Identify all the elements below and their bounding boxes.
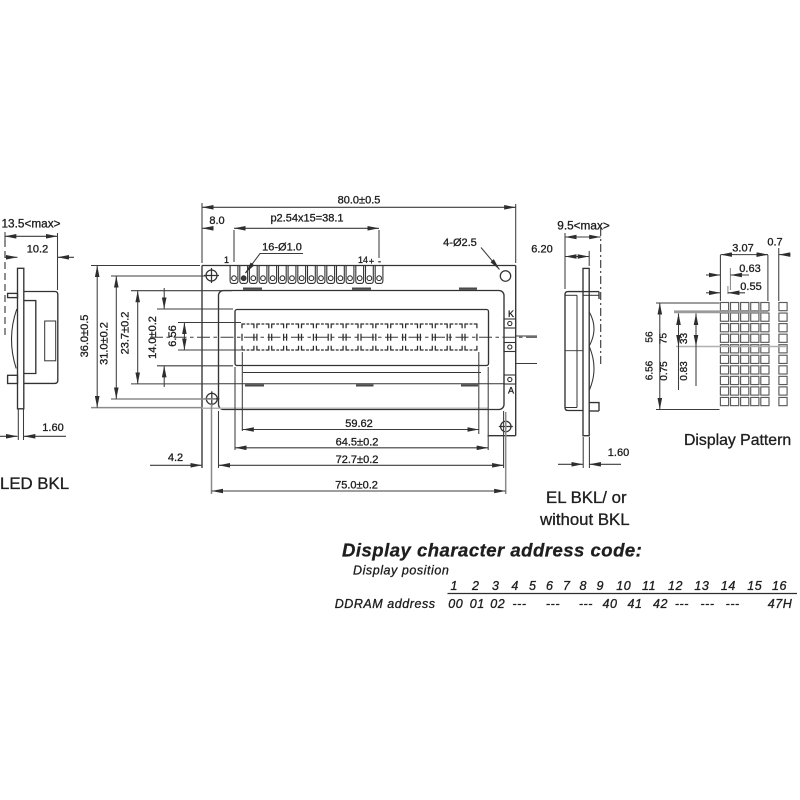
svg-text:5: 5 (529, 579, 537, 593)
svg-text:6: 6 (546, 579, 554, 593)
dim 6.56 (659, 303, 661, 410)
inner glass (576, 295, 578, 407)
svg-text:10: 10 (616, 579, 631, 593)
svg-text:---: --- (700, 597, 714, 611)
bezel inner fold line (219, 383, 504, 385)
svg-text:33: 33 (679, 333, 690, 345)
svg-text:40: 40 (602, 597, 617, 611)
svg-text:59.62: 59.62 (345, 418, 373, 430)
svg-text:3.07: 3.07 (732, 243, 753, 255)
bezel bottom tabs (245, 384, 264, 386)
svg-text:11: 11 (642, 579, 656, 593)
svg-text:Display Pattern: Display Pattern (684, 432, 791, 449)
K/A backlight pads (504, 319, 516, 384)
housing box (565, 292, 583, 411)
svg-text:4: 4 (511, 579, 519, 593)
mounting hole top-right (500, 271, 510, 281)
pcb top edge (202, 265, 516, 267)
pcb right edge (515, 266, 517, 436)
svg-text:---: --- (726, 597, 740, 611)
dim p2.54 (234, 227, 379, 229)
display window (235, 310, 489, 366)
svg-text:---: --- (512, 597, 526, 611)
svg-text:16: 16 (772, 579, 787, 593)
svg-text:p2.54x15=38.1: p2.54x15=38.1 (270, 213, 343, 225)
seam line (565, 350, 583, 352)
dim 6.56 arrows inside (183, 323, 185, 337)
bottom tab (589, 403, 599, 411)
svg-text:LED BKL: LED BKL (0, 474, 69, 493)
dim 3.07 (720, 254, 768, 256)
vert ext lines (656, 302, 720, 304)
horiz ext lines (719, 255, 721, 301)
ext lines (201, 203, 203, 263)
housing box (24, 292, 58, 384)
svg-text:DDRAM address: DDRAM address (335, 597, 436, 611)
dim 36.0 (96, 266, 98, 408)
svg-text:0.7: 0.7 (767, 237, 782, 249)
dim 0.63 (706, 274, 720, 276)
bezel top tabs (243, 289, 478, 386)
svg-text:Display character address code: Display character address code: (342, 540, 642, 561)
right side dims (558, 233, 621, 468)
svg-text:14: 14 (721, 579, 736, 593)
svg-text:12: 12 (668, 579, 683, 593)
pcb left edge (extends down as extension line) (201, 266, 203, 469)
led dome arc (11, 309, 16, 369)
pcb bottom-right tab bottom edge (488, 435, 516, 437)
dim 4.2 (150, 464, 202, 466)
svg-text:7: 7 (563, 579, 571, 593)
mounting screw bottom-left (206, 393, 217, 404)
svg-text:15: 15 (747, 579, 762, 593)
svg-text:02: 02 (490, 597, 505, 611)
svg-text:without BKL: without BKL (539, 510, 630, 529)
svg-text:0.55: 0.55 (740, 281, 761, 293)
svg-text:31.0±0.2: 31.0±0.2 (99, 322, 111, 365)
ext lines (241, 352, 243, 431)
pin header row (230, 266, 383, 284)
dim 14.0 arrows outside (163, 288, 165, 309)
top shelf across (583, 291, 599, 293)
svg-text:23.7±0.2: 23.7±0.2 (120, 312, 132, 355)
svg-text:K: K (508, 309, 514, 319)
svg-text:8.0: 8.0 (209, 215, 224, 227)
dim 75.0 (212, 490, 506, 492)
mounting screw top-left (204, 268, 513, 434)
svg-text:10.2: 10.2 (27, 244, 48, 256)
svg-text:72.7±0.2: 72.7±0.2 (336, 454, 379, 466)
mounting screw bottom-right (501, 421, 511, 431)
dim 8.0 (202, 227, 213, 229)
svg-text:6.56: 6.56 (167, 325, 179, 346)
svg-text:64.5±0.2: 64.5±0.2 (336, 436, 379, 448)
svg-text:01: 01 (470, 597, 485, 611)
dim 80.0±0.5 (202, 206, 516, 208)
dim 72.7 (219, 464, 504, 466)
svg-text:16-Ø1.0: 16-Ø1.0 (262, 242, 302, 254)
svg-text:56: 56 (645, 331, 656, 343)
dashed max envelope (4, 240, 6, 336)
dim 0.75 col (678, 314, 680, 391)
svg-text:---: --- (675, 597, 689, 611)
svg-text:1: 1 (451, 579, 459, 593)
pcb bar (18, 268, 24, 409)
leader 4-o2.5 (481, 248, 500, 270)
svg-text:75.0±0.2: 75.0±0.2 (335, 479, 378, 491)
svg-text:---: --- (546, 597, 560, 611)
svg-text:6.20: 6.20 (531, 244, 552, 256)
svg-text:80.0±0.5: 80.0±0.5 (338, 195, 381, 207)
svg-text:+: + (369, 257, 374, 267)
dot matrix grid (720, 303, 787, 406)
dim 0.55 (706, 292, 720, 294)
pattern dims (656, 248, 791, 410)
glass lower edge (243, 372, 481, 374)
dim 0.83 col (695, 314, 697, 387)
svg-text:41: 41 (627, 597, 642, 611)
svg-text:A: A (508, 386, 514, 396)
pin stubs (8, 293, 18, 297)
svg-text:8: 8 (579, 579, 587, 593)
el arcs (589, 312, 594, 346)
front glass rect (45, 321, 56, 361)
svg-text:3: 3 (492, 579, 500, 593)
svg-text:4-Ø2.5: 4-Ø2.5 (443, 237, 477, 249)
bezel rounded rect (219, 291, 505, 410)
svg-text:14.0±0.2: 14.0±0.2 (147, 316, 159, 359)
dim 31.0 (115, 276, 117, 399)
svg-text:13.5<max>: 13.5<max> (1, 217, 60, 231)
dim 0.7 arrows outside (756, 254, 768, 256)
svg-text:---: --- (579, 597, 593, 611)
svg-text:EL BKL/ or: EL BKL/ or (546, 488, 627, 507)
svg-text:36.0±0.5: 36.0±0.5 (79, 315, 91, 358)
svg-text:9.5<max>: 9.5<max> (557, 219, 610, 233)
svg-text:00: 00 (448, 597, 463, 611)
dash-dot envelope (600, 228, 602, 364)
svg-text:0.75: 0.75 (659, 361, 670, 381)
svg-text:13: 13 (694, 579, 709, 593)
svg-text:1: 1 (224, 255, 229, 265)
svg-text:Display position: Display position (353, 564, 449, 578)
svg-text:1.60: 1.60 (42, 422, 63, 434)
svg-text:2: 2 (471, 579, 480, 593)
16 character cells (242, 324, 477, 350)
svg-text:4.2: 4.2 (168, 452, 183, 464)
gray ext bars across grid (674, 310, 768, 313)
dim 64.5 (235, 447, 488, 449)
inner cell lines (24, 301, 36, 374)
svg-text:9: 9 (597, 579, 605, 593)
pcb bar (583, 268, 589, 435)
dim 59.62 (242, 429, 478, 431)
character row centerline (150, 336, 537, 338)
svg-text:0.63: 0.63 (739, 263, 760, 275)
svg-text:14: 14 (358, 255, 368, 265)
svg-text:47H: 47H (768, 597, 793, 611)
svg-text:0.83: 0.83 (679, 361, 690, 381)
svg-text:75: 75 (659, 333, 670, 345)
svg-text:1.60: 1.60 (608, 447, 629, 459)
left side dims (0, 232, 74, 440)
ext lines (91, 265, 200, 267)
svg-text:6.56: 6.56 (645, 360, 656, 380)
wire stubs right of pcb (516, 336, 537, 364)
leader 16-o1.0 (246, 254, 304, 274)
svg-text:42: 42 (653, 597, 668, 611)
dim 23.7 (137, 291, 139, 384)
